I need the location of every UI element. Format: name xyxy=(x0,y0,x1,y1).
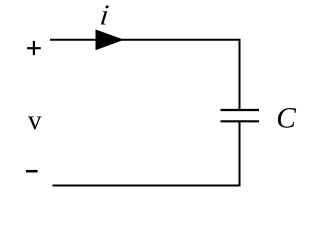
plus terminal xyxy=(27,41,41,55)
bottom wire xyxy=(53,185,241,187)
svg-text:v: v xyxy=(28,105,42,135)
capacitor C bottom plate xyxy=(221,120,260,122)
current arrow xyxy=(96,29,125,50)
top wire xyxy=(50,39,241,41)
wire right vertical bottom xyxy=(239,121,241,186)
svg-text:i: i xyxy=(98,0,110,31)
capacitor C top plate xyxy=(221,109,260,111)
label i xyxy=(98,0,110,31)
svg-text:C: C xyxy=(276,102,296,134)
minus terminal xyxy=(26,170,38,173)
wire right vertical top xyxy=(239,39,241,110)
